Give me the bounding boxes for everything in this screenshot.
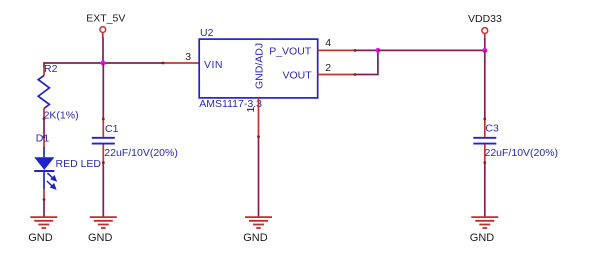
node C junction [482, 48, 487, 53]
capacitor C1 [92, 118, 115, 164]
wire VDD33 to node C [484, 38, 486, 50]
capacitor C3 [473, 118, 496, 164]
svg-text:1: 1 [245, 107, 257, 113]
designator C1 [105, 123, 119, 135]
wire C3 to ground [484, 163, 486, 217]
wire D1 to ground [43, 200, 45, 217]
svg-text:4: 4 [325, 37, 331, 49]
svg-text:2: 2 [325, 62, 331, 74]
svg-text:D1: D1 [36, 132, 50, 144]
value AMS1117-3.3 [199, 98, 262, 110]
wire node C to C3 [484, 50, 486, 119]
designator R2 [44, 63, 58, 75]
designator D1 [36, 132, 50, 144]
svg-text:22uF/10V(20%): 22uF/10V(20%) [485, 147, 559, 159]
resistor R2 [38, 67, 49, 121]
pin 3 (VIN) of U2 [162, 62, 200, 65]
ground symbol (C3 branch) [471, 217, 498, 228]
svg-text:C3: C3 [485, 122, 499, 134]
net label GND (C3 branch) [470, 232, 495, 244]
pin number 4 [325, 37, 331, 49]
net label GND (U2 branch) [243, 232, 268, 244]
svg-text:VIN: VIN [204, 59, 223, 71]
svg-text:R2: R2 [44, 63, 58, 75]
wire node A to R2 [44, 63, 103, 67]
wire node A to U2 VIN pin [103, 62, 163, 64]
svg-text:VDD33: VDD33 [468, 13, 502, 25]
net label GND (C1 branch) [88, 232, 113, 244]
value 22uF/10V(20%) of C3 [485, 147, 559, 159]
power terminal EXT_5V [100, 27, 106, 38]
pin number 2 [325, 62, 331, 74]
value 22uF/10V(20%) of C1 [104, 147, 178, 159]
svg-text:GND: GND [88, 232, 113, 244]
designator U2 [200, 27, 214, 39]
svg-text:P_VOUT: P_VOUT [269, 46, 312, 58]
svg-text:C1: C1 [105, 123, 119, 135]
node A junction [101, 61, 106, 66]
svg-text:EXT_5V: EXT_5V [86, 13, 125, 25]
net label EXT_5V [86, 13, 125, 25]
svg-text:22uF/10V(20%): 22uF/10V(20%) [104, 147, 178, 159]
designator C3 [485, 122, 499, 134]
pin name GND/ADJ [253, 43, 265, 89]
svg-text:VOUT: VOUT [283, 69, 313, 81]
wire pin4 to node B [355, 49, 378, 51]
wire EXT_5V to node A [102, 38, 104, 64]
svg-text:3: 3 [185, 51, 191, 63]
wire pin2 to node B [355, 50, 378, 74]
label RED LED [56, 158, 102, 170]
value 2K(1%) [44, 110, 79, 122]
ground symbol (C1 branch) [90, 217, 117, 228]
svg-text:2K(1%): 2K(1%) [44, 110, 79, 122]
ground symbol (U2 branch) [245, 217, 272, 228]
net label GND (D1 branch) [28, 232, 53, 244]
wire U2 pin1 to ground [258, 137, 260, 217]
LED D1 [34, 136, 56, 201]
pin 1 (GND/ADJ) of U2 [257, 98, 260, 138]
node B junction [375, 48, 380, 53]
regulator U2 body [199, 39, 318, 98]
svg-text:GND: GND [243, 232, 268, 244]
wire node A to C1 [102, 63, 104, 119]
svg-text:GND/ADJ: GND/ADJ [253, 43, 265, 89]
svg-text:RED LED: RED LED [56, 158, 102, 170]
pin 2 (VOUT) of U2 [318, 73, 357, 76]
pin name VOUT [283, 69, 313, 81]
pin number 1 [245, 107, 257, 113]
ground symbol (D1 branch) [30, 217, 57, 228]
pin 4 (P_VOUT) of U2 [318, 49, 357, 52]
svg-text:GND: GND [28, 232, 53, 244]
wire C1 to ground [102, 163, 104, 217]
pin number 3 [185, 51, 191, 63]
pin name VIN [204, 59, 223, 71]
power terminal VDD33 [482, 28, 488, 39]
svg-text:GND: GND [470, 232, 495, 244]
wire R2 to D1 [43, 119, 45, 137]
net label VDD33 [468, 13, 502, 25]
pin name P_VOUT [269, 46, 312, 58]
svg-text:U2: U2 [200, 27, 214, 39]
wire node B to node C [378, 49, 485, 51]
